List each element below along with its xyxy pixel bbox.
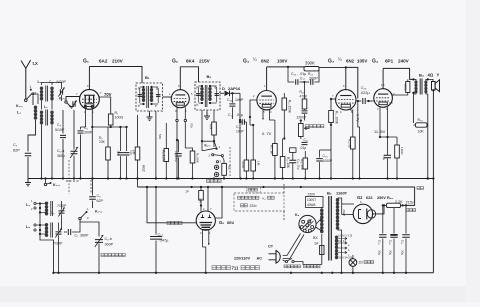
- svg-text:3.15V 0 3.15: 3.15V 0 3.15: [338, 235, 353, 238]
- junction row y127: [91, 126, 128, 128]
- note box power plug: [234, 193, 284, 211]
- label G4 6P1 240V: [372, 59, 410, 65]
- label 215v: [406, 201, 416, 212]
- svg-text:7,8: 7,8: [389, 101, 393, 105]
- G4 top wire: [382, 68, 384, 88]
- svg-text:2AP16: 2AP16: [228, 86, 241, 91]
- resistor R17 10K: [280, 139, 290, 179]
- capacitor C14: [229, 92, 235, 119]
- trimmer C10: [55, 223, 61, 273]
- wire B2 secondary bottom to K2: [201, 110, 204, 151]
- G5 plate wire: [215, 186, 223, 218]
- svg-text:R₁₈ 5K: R₁₈ 5K: [347, 139, 351, 149]
- svg-text:400Ω: 400Ω: [404, 83, 408, 91]
- G1 cathode wires: [81, 105, 94, 178]
- svg-text:AC: AC: [257, 257, 263, 261]
- label HV line: [417, 187, 424, 190]
- resistor R8 470K: [241, 122, 249, 179]
- svg-text:.05μ: .05μ: [117, 150, 121, 156]
- B1 windings and core: [138, 86, 158, 108]
- svg-text:G₃: G₃: [243, 59, 250, 65]
- svg-text:B₅: B₅: [327, 191, 332, 196]
- label K1-1: [16, 104, 23, 108]
- label G2 6K4 215V: [172, 59, 211, 65]
- G3b cathode: [350, 110, 360, 137]
- svg-text:6P1: 6P1: [385, 59, 394, 64]
- wire detector to volume: [240, 117, 250, 179]
- power switch K: [283, 258, 322, 264]
- G3b top wire: [345, 66, 347, 89]
- capacitor C9 62P: [89, 177, 103, 208]
- svg-text:56K: 56K: [158, 134, 162, 139]
- bottom bus node dots: [52, 272, 407, 274]
- capacitor C16b 100P: [236, 119, 246, 133]
- svg-text:¹⁄₂: ¹⁄₂: [338, 57, 342, 62]
- capacitor C17b: [302, 142, 308, 155]
- svg-text:360P: 360P: [105, 243, 114, 247]
- svg-text:147 0 1: 147 0 1: [338, 240, 347, 243]
- label C17 .01u: [300, 138, 310, 150]
- resistor R13b 470K: [300, 81, 309, 110]
- svg-text:R₁₀: R₁₀: [227, 165, 231, 170]
- plug wires: [283, 234, 304, 259]
- resistor R9 68K: [185, 148, 199, 180]
- transformer B5 HV secondary: [336, 198, 346, 238]
- svg-text:g: g: [156, 86, 158, 90]
- G3a top cap wire: [266, 67, 268, 91]
- resistor R19 10K: [413, 118, 430, 134]
- svg-text:1: 1: [30, 85, 32, 89]
- tube Gz: [353, 204, 376, 223]
- svg-text:0. 7V: 0. 7V: [262, 131, 272, 136]
- svg-text:470K: 470K: [300, 95, 309, 99]
- Gz cathode to R20: [373, 204, 386, 214]
- wire R7 to K2: [202, 135, 216, 148]
- svg-text:1A: 1A: [314, 242, 319, 246]
- label 220/110V AC: [234, 257, 262, 261]
- B2 ground: [204, 110, 210, 119]
- label G3b half 6N2 105V: [328, 57, 367, 65]
- svg-text:C₁₂ .05μ: C₁₂ .05μ: [174, 151, 178, 162]
- svg-text:G₅: G₅: [219, 220, 224, 225]
- svg-text:2: 2: [35, 92, 37, 96]
- label D 2AP16: [222, 86, 241, 91]
- resistor R2 23K: [99, 127, 110, 179]
- wire B4 primary bottom down: [412, 93, 414, 123]
- G3b grid wire: [330, 98, 336, 100]
- wire C16 node down: [357, 100, 360, 179]
- label K5: [295, 213, 300, 217]
- svg-text:L₄: L₄: [26, 203, 30, 207]
- ground bus: [28, 177, 435, 179]
- capacitor C20 30u: [389, 208, 398, 273]
- transformer B5 heater windings: [335, 236, 342, 273]
- svg-text:e: e: [155, 104, 157, 108]
- capacitor C22 10u: [382, 137, 391, 179]
- svg-text:C₁₄: C₁₄: [227, 98, 233, 102]
- svg-text:300P: 300P: [84, 131, 93, 135]
- wire L1 to ground bus: [28, 124, 36, 152]
- label volume pot: [306, 125, 324, 128]
- antenna: [21, 60, 38, 99]
- tube G2: [171, 90, 189, 108]
- svg-text:K₁-₁: K₁-₁: [16, 104, 23, 108]
- svg-text:C₁₇: C₁₇: [300, 77, 306, 81]
- switch K1-3: [44, 177, 60, 187]
- svg-text:L₁: L₁: [17, 111, 21, 115]
- label L5: [26, 225, 30, 229]
- svg-text:ZD: ZD: [359, 261, 364, 265]
- svg-text:30μ: 30μ: [389, 250, 393, 255]
- svg-text:C₂: C₂: [13, 143, 18, 147]
- svg-text:6E2: 6E2: [227, 220, 235, 225]
- label L2: [44, 105, 48, 109]
- capacitor C11 360P: [59, 222, 89, 238]
- svg-text:R₁₂ 150K: R₁₂ 150K: [288, 100, 292, 114]
- B2 to diode wire: [220, 92, 224, 94]
- trimmer C1: [52, 83, 65, 102]
- label G1 6A2 210V: [83, 59, 124, 65]
- tube G4: [374, 89, 393, 108]
- coil L4: [31, 199, 53, 216]
- switch K1-4: [79, 207, 102, 220]
- switch K1-2: [59, 97, 72, 108]
- capacitor C5: [78, 127, 84, 179]
- svg-text:6K4: 6K4: [186, 59, 195, 64]
- label 220V: [308, 193, 317, 197]
- svg-text:C₁₇: C₁₇: [304, 138, 310, 142]
- svg-text:C₁₅: C₁₅: [228, 113, 234, 117]
- svg-text:B₄: B₄: [419, 73, 424, 78]
- label C15 .01u: [228, 113, 243, 117]
- svg-text:t.X: t.X: [33, 61, 39, 66]
- svg-text:280V: 280V: [342, 209, 346, 216]
- svg-text:215v: 215v: [406, 201, 414, 205]
- wire K1-4 to C6-b: [80, 212, 99, 237]
- resistor R14 390K: [304, 67, 319, 77]
- label AGC: [142, 165, 146, 173]
- svg-text:.01μ: .01μ: [300, 146, 307, 150]
- svg-text:360p: 360p: [57, 154, 65, 158]
- G5 cathode wires: [203, 230, 210, 273]
- svg-text:1000P: 1000P: [323, 159, 334, 163]
- svg-text:250V: 250V: [377, 196, 386, 200]
- svg-text:220/110V: 220/110V: [234, 257, 251, 261]
- capacitor C13: [287, 66, 305, 85]
- svg-text:B₂: B₂: [207, 74, 212, 79]
- IF transformer B2 dashed box: [195, 82, 220, 110]
- G3b plate rail right: [332, 67, 358, 98]
- svg-text:210V: 210V: [112, 59, 124, 64]
- tube G1: [80, 90, 100, 110]
- G3a cathode wires: [262, 110, 274, 120]
- label B5 1160T: [327, 191, 348, 196]
- trimmer C4: [71, 101, 77, 109]
- B1 secondary bottom to bus: [144, 106, 152, 111]
- output transformer B4: [412, 78, 429, 94]
- wire G1 to R1: [99, 97, 110, 114]
- label 7/30P lower: [53, 242, 63, 246]
- svg-text:711: 711: [232, 265, 240, 270]
- diode D: [225, 91, 241, 97]
- capacitor C12a 0.05: [174, 139, 182, 179]
- label 70V: [104, 92, 112, 97]
- label Gz 6Z4 250V: [357, 195, 386, 200]
- IF transformer B1 dashed box: [136, 83, 163, 111]
- svg-text:C₁₉: C₁₉: [378, 240, 382, 245]
- label power switch: [284, 265, 301, 268]
- label C1 5/20P: [49, 80, 66, 84]
- svg-text:70V: 70V: [104, 92, 112, 97]
- svg-text:4,2: 4,2: [391, 92, 395, 96]
- label L1: [17, 111, 21, 115]
- grid wire to G3a: [249, 100, 257, 118]
- variable capacitor C6-b: [95, 235, 114, 273]
- svg-text:100P: 100P: [235, 98, 244, 102]
- svg-text:L₅: L₅: [26, 225, 30, 229]
- volume potentiometer: [299, 119, 310, 139]
- svg-text:R₆ 2.2M: R₆ 2.2M: [161, 150, 165, 162]
- svg-text:7/30P: 7/30P: [57, 204, 67, 208]
- capacitor C21 30u: [401, 204, 410, 273]
- B+ rail 215V: [138, 187, 415, 205]
- svg-text:C₁₃ , .01μ: C₁₃ , .01μ: [291, 72, 306, 76]
- B2 trimmer right: [210, 86, 219, 103]
- svg-text:R₁₄: R₁₄: [308, 72, 314, 76]
- svg-text:R₁₆ 10K: R₁₆ 10K: [300, 159, 304, 171]
- svg-text:BX: BX: [313, 236, 318, 240]
- wire k13 contact down: [51, 183, 53, 187]
- label C13 .01u: [291, 72, 306, 76]
- label 390K: [305, 61, 315, 66]
- svg-text:L₂: L₂: [44, 105, 48, 109]
- label B1: [145, 75, 150, 80]
- label C2 62P: [13, 143, 20, 153]
- wire speaker return down: [432, 90, 434, 272]
- coil L1: [33, 94, 38, 124]
- resistor R7 47K: [209, 110, 217, 147]
- svg-text:CT: CT: [268, 245, 274, 249]
- label R20 2.2K: [387, 196, 403, 204]
- label BX 1A: [313, 236, 319, 246]
- svg-text:R₁₅ 100K: R₁₅ 100K: [335, 111, 339, 125]
- capacitor C16e 10u: [289, 148, 300, 179]
- ground bus node dots: [40, 177, 429, 179]
- svg-text:. 047μ: . 047μ: [158, 238, 169, 243]
- svg-text:10K: 10K: [418, 130, 425, 134]
- label C17 200P: [300, 77, 318, 81]
- svg-text:7/30P: 7/30P: [53, 242, 63, 246]
- svg-text:40WA: 40WA: [307, 203, 316, 207]
- label L0: [38, 80, 42, 84]
- svg-text:470K: 470K: [241, 161, 245, 169]
- svg-text:G₂: G₂: [172, 59, 178, 65]
- svg-text:105V: 105V: [357, 59, 367, 64]
- svg-text:K₁-₂: K₁-₂: [59, 97, 66, 101]
- svg-text:6A2: 6A2: [99, 59, 108, 64]
- label tuning indicator: [167, 221, 182, 224]
- label 11.5V: [374, 129, 386, 134]
- bottom bus: [54, 272, 434, 274]
- svg-text:b: b: [197, 103, 199, 107]
- tube G3a: [257, 91, 276, 110]
- transformer L2: [40, 104, 54, 179]
- heater tap arrows: [336, 235, 353, 260]
- svg-text:30μ: 30μ: [378, 250, 382, 255]
- dashed gang to K2: [229, 147, 231, 177]
- label ZD pilot: [359, 261, 374, 265]
- capacitor C2: [25, 153, 32, 178]
- svg-text:5/10P: 5/10P: [55, 128, 65, 132]
- resistor R5 1M on B+ riser: [132, 115, 140, 187]
- label C16 .022u: [360, 86, 370, 95]
- resistor R13 150K: [282, 93, 292, 140]
- svg-text:G₃: G₃: [328, 59, 335, 65]
- svg-text:6Z4: 6Z4: [366, 196, 373, 200]
- trimmer C8: [51, 201, 65, 230]
- capacitor C12 .047u: [150, 187, 168, 273]
- svg-text:R₂₀: R₂₀: [387, 196, 393, 200]
- svg-text:390K: 390K: [305, 61, 315, 66]
- svg-text:C₃: C₃: [57, 123, 62, 127]
- label L4: [26, 203, 30, 207]
- label pickup jack: [207, 179, 222, 182]
- label G3a half 6N2 100V: [243, 57, 287, 65]
- svg-text:R₉ 68K: R₉ 68K: [196, 153, 200, 164]
- resistor R21 56K: [186, 186, 210, 212]
- svg-text:1000T: 1000T: [307, 198, 316, 202]
- svg-text:AGC: AGC: [142, 165, 146, 173]
- svg-text:.01μ: .01μ: [236, 113, 243, 117]
- G4 plate rail to B4: [383, 68, 413, 79]
- svg-text:4Ω: 4Ω: [428, 73, 434, 78]
- svg-text:160Ω: 160Ω: [400, 147, 404, 155]
- svg-text:D: D: [222, 86, 225, 91]
- svg-text:360P: 360P: [80, 234, 89, 238]
- label C14 100P: [227, 98, 244, 102]
- switch K2: [204, 144, 224, 164]
- svg-text:G₁: G₁: [83, 59, 89, 65]
- fuse BX: [320, 246, 324, 265]
- svg-text:1,6: 1,6: [381, 83, 385, 87]
- svg-text:C₆-b: C₆-b: [105, 237, 112, 241]
- svg-text:240V: 240V: [398, 59, 410, 64]
- dashed line from note: [283, 184, 285, 221]
- wire B4 secondary bottom down: [427, 94, 429, 180]
- label CT: [268, 245, 274, 249]
- svg-text:62P: 62P: [13, 149, 20, 153]
- svg-text:g: g: [215, 85, 217, 89]
- B1 ground: [147, 111, 153, 120]
- svg-text:Gᴢ: Gᴢ: [357, 195, 362, 200]
- svg-text:b: b: [138, 104, 140, 108]
- svg-text:G₄: G₄: [372, 59, 379, 65]
- svg-text:220v: 220v: [250, 204, 258, 208]
- wire b+ riser x137: [137, 150, 139, 187]
- coil L5: [34, 223, 53, 238]
- pilot lamp ZD: [349, 255, 357, 273]
- B1 secondary to G2 grid: [163, 96, 172, 98]
- svg-text:K₁-₃: K₁-₃: [53, 183, 60, 187]
- G5 grid wire: [146, 186, 196, 223]
- svg-text:C₈: C₈: [51, 211, 55, 215]
- svg-text:C₉: C₉: [97, 194, 102, 198]
- label B2: [207, 74, 212, 79]
- G2 cathode wires: [176, 107, 194, 178]
- transformer B5 primary: [320, 207, 324, 245]
- G4 screen resistor 400ohm: [392, 79, 410, 95]
- transformer B5 core: [329, 196, 332, 261]
- label qu gao fang: [247, 187, 261, 193]
- label 7/30P upper: [57, 204, 67, 208]
- G1 plate rail to B1: [89, 67, 142, 84]
- svg-text:2200P: 2200P: [297, 116, 307, 120]
- tube G5: [196, 211, 215, 230]
- svg-text:¹⁄₂: ¹⁄₂: [253, 57, 257, 62]
- svg-text:100V: 100V: [277, 59, 287, 64]
- B+ rail node dots: [146, 186, 302, 188]
- G1 top cap wire to rail: [88, 67, 90, 90]
- svg-text:R₁₉: R₁₉: [418, 118, 424, 122]
- svg-text:70V: 70V: [190, 123, 194, 128]
- wire R19 right down: [425, 125, 428, 130]
- resistor R20: [384, 203, 404, 207]
- resistor R9 1M: [250, 124, 261, 179]
- label C3 5/10P: [55, 123, 65, 132]
- svg-text:C₁₂: C₁₂: [158, 232, 164, 237]
- G2 top cap wire: [179, 67, 181, 90]
- svg-text:B₁: B₁: [145, 75, 150, 80]
- svg-text:62P: 62P: [97, 199, 104, 203]
- resistor R6 2.2M: [161, 123, 168, 179]
- svg-text:C₆-a: C₆-a: [57, 149, 64, 153]
- capacitor C15 2200P: [297, 111, 308, 121]
- speaker: [428, 79, 440, 91]
- resistor R11 3K: [270, 120, 278, 179]
- B2 windings and core: [197, 85, 217, 107]
- svg-text:6N2: 6N2: [346, 59, 355, 64]
- svg-text:23K: 23K: [99, 140, 106, 144]
- svg-text:C₁₈: C₁₈: [323, 154, 329, 158]
- capacitor C18 1000P: [316, 150, 333, 179]
- svg-text:Y: Y: [437, 73, 440, 78]
- capacitor bypass Ca: [117, 127, 124, 179]
- G3a plate rail: [267, 66, 304, 68]
- label power transformer: [304, 265, 321, 268]
- svg-text:C₂₀: C₂₀: [389, 240, 393, 245]
- grid wire to G1: [66, 97, 80, 102]
- switch K1-1: [25, 85, 37, 102]
- resistor R18c 5K: [347, 137, 355, 179]
- K5 wire to primary: [316, 218, 322, 231]
- label C6-a 360p: [57, 149, 65, 158]
- primary spec box: [306, 197, 324, 208]
- svg-text:215V: 215V: [199, 59, 211, 64]
- dashed gang segment top: [66, 180, 91, 194]
- capacitor C17 200P: [306, 69, 319, 85]
- detector out wire: [239, 93, 241, 121]
- voltage selector plug K5: [299, 215, 316, 232]
- label C5 300P: [84, 126, 93, 135]
- svg-text:100P: 100P: [236, 130, 245, 134]
- wire B1 secondary to bus: [155, 111, 162, 180]
- capacitor C19 30u: [378, 204, 387, 273]
- svg-text:6N2: 6N2: [261, 59, 270, 64]
- resistor R18 160: [395, 137, 404, 179]
- capacitor bypass Cb: [124, 127, 134, 179]
- phono jack: [214, 165, 218, 177]
- resistor R1 100ohm: [108, 111, 123, 125]
